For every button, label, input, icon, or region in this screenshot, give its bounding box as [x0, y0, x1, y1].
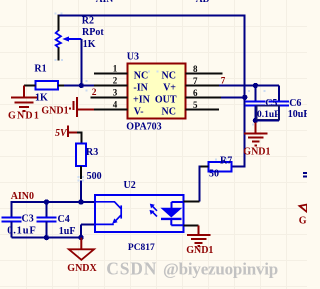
- op-amp U3 body: [128, 64, 186, 119]
- wire V+ to caps: [219, 85, 279, 87]
- ground GNDX: [67, 238, 97, 274]
- svg-text:0.1uF: 0.1uF: [7, 226, 36, 237]
- svg-text:PC817: PC817: [128, 243, 155, 253]
- node C4 bottom: [44, 235, 49, 240]
- svg-text:U3: U3: [127, 52, 139, 63]
- ground GND1 at R1 left: [8, 86, 40, 122]
- svg-text:U2: U2: [124, 180, 136, 191]
- wire R3 to AIN0 rail: [80, 181, 82, 202]
- svg-text:R2: R2: [82, 16, 94, 27]
- svg-text:2: 2: [92, 88, 97, 98]
- svg-text:-IN: -IN: [133, 82, 148, 93]
- resistor R1 body: [35, 81, 58, 90]
- wire U2 emitter to bottom rail: [81, 224, 96, 237]
- resistor R7 body: [209, 162, 232, 172]
- pin 2 (-IN): [94, 76, 149, 94]
- svg-text:OPA703: OPA703: [126, 122, 161, 133]
- pin 6 (OUT): [155, 88, 221, 105]
- svg-text:10uF: 10uF: [288, 109, 307, 120]
- resistor R1 leads: [24, 85, 66, 87]
- pin U2 cathode stub: [183, 224, 198, 226]
- optocoupler U2 box: [95, 195, 183, 232]
- cut-off ground triangle at right edge: [300, 205, 308, 213]
- svg-text:3: 3: [113, 88, 118, 98]
- pin 4 (V-): [94, 100, 144, 118]
- capacitor C4: [36, 202, 56, 238]
- svg-text:RPot: RPot: [82, 27, 104, 38]
- ground GND1 under U2: [186, 225, 213, 256]
- svg-text:0.1uF: 0.1uF: [257, 110, 280, 120]
- wire R1 to junction: [64, 85, 81, 87]
- pin 3 (+IN): [91, 88, 151, 106]
- svg-text:2: 2: [113, 76, 118, 86]
- capacitor C3: [1, 218, 21, 238]
- light arrows: [150, 204, 158, 217]
- wire wiper down to pin2 node: [80, 39, 82, 86]
- transistor Q (U2 phototransistor): [95, 202, 121, 225]
- svg-text:OUT: OUT: [155, 94, 177, 105]
- svg-text:V-: V-: [134, 107, 144, 118]
- pin U2 anode stub: [183, 201, 199, 203]
- svg-text:GNDX: GNDX: [67, 263, 97, 274]
- wire bottom rail: [11, 237, 81, 239]
- diode LED (U2): [161, 202, 183, 225]
- wire AIN0 down to C3: [10, 201, 12, 218]
- node C5 top: [253, 83, 258, 88]
- svg-text:@biyezuopinvip: @biyezuopinvip: [163, 259, 278, 278]
- svg-text:5V: 5V: [55, 128, 68, 139]
- pin 5 (NC): [162, 100, 219, 118]
- svg-text:7: 7: [193, 76, 198, 86]
- node R3/AIN0 junction: [78, 199, 83, 204]
- svg-text:500: 500: [87, 171, 102, 182]
- selection marks: [55, 13, 266, 182]
- svg-text:AIN0: AIN0: [11, 191, 34, 202]
- svg-text:8: 8: [193, 64, 198, 74]
- svg-text:NC: NC: [162, 107, 176, 118]
- svg-text:1: 1: [113, 64, 118, 74]
- svg-text:50: 50: [209, 168, 219, 179]
- svg-text:AD: AD: [196, 0, 210, 5]
- pin 7 (V+): [163, 76, 219, 93]
- pin 8 (NC): [162, 64, 223, 81]
- wire R7 to U2 anode: [198, 165, 200, 201]
- svg-text:1uF: 1uF: [59, 226, 76, 237]
- node OUT/vertical junction: [242, 95, 247, 100]
- svg-text:R1: R1: [34, 64, 46, 75]
- potentiometer R2 zigzag body: [56, 31, 61, 48]
- svg-text:CSDN: CSDN: [106, 258, 157, 278]
- frame around C5 value label: [257, 106, 280, 120]
- svg-text:G: G: [299, 216, 307, 227]
- svg-text:+IN: +IN: [133, 94, 151, 105]
- node GNDX junction: [78, 235, 83, 240]
- capacitor C5: [245, 86, 265, 121]
- potentiometer R2 leads: [57, 15, 59, 61]
- svg-text:GND1: GND1: [8, 110, 40, 121]
- svg-text:C3: C3: [22, 214, 34, 225]
- svg-text:R7: R7: [220, 155, 232, 166]
- cut-off capacitor at right edge: [303, 173, 307, 177]
- wire top feedback: pot top to OUT vertical: [57, 15, 245, 168]
- svg-text:GND1: GND1: [186, 245, 213, 256]
- svg-text:GND1: GND1: [243, 147, 270, 158]
- svg-text:R3: R3: [86, 147, 98, 158]
- svg-text:NC: NC: [134, 70, 148, 81]
- wire OUT to vertical: [221, 97, 245, 99]
- node C5/C6 bottom junction: [253, 118, 258, 123]
- svg-text:C6: C6: [289, 98, 301, 109]
- svg-text:GND1: GND1: [41, 106, 68, 117]
- node junction wiper/R1/pin2: [79, 83, 84, 88]
- power port 5V: [55, 125, 78, 138]
- svg-text:1K: 1K: [83, 39, 96, 50]
- capacitor C6: [255, 86, 289, 121]
- svg-text:AIN: AIN: [96, 0, 114, 5]
- transistor emitter arrowhead: [112, 218, 117, 223]
- resistor R7 left lead: [200, 165, 209, 167]
- svg-text:5: 5: [193, 100, 198, 110]
- resistor R3 bottom lead: [80, 166, 82, 179]
- svg-text:4: 4: [113, 100, 118, 110]
- svg-text:6: 6: [193, 88, 198, 98]
- svg-text:C4: C4: [58, 214, 70, 225]
- pin 1 (NC): [94, 64, 148, 82]
- resistor R3 body: [76, 143, 86, 166]
- wire AIN0 rail: [11, 201, 96, 203]
- svg-text:7: 7: [221, 76, 226, 86]
- ground GND1 under C5/C6: [243, 123, 270, 158]
- svg-text:NC: NC: [162, 70, 176, 81]
- svg-text:C5: C5: [265, 98, 277, 109]
- potentiometer R2 wiper arrow: [62, 36, 81, 41]
- svg-text:V+: V+: [163, 82, 176, 93]
- wire junction to pin2: [81, 85, 94, 87]
- node C4 top junction: [44, 199, 49, 204]
- wire 5V to R3: [77, 132, 81, 144]
- power port GND1 at pin 4: [41, 97, 94, 117]
